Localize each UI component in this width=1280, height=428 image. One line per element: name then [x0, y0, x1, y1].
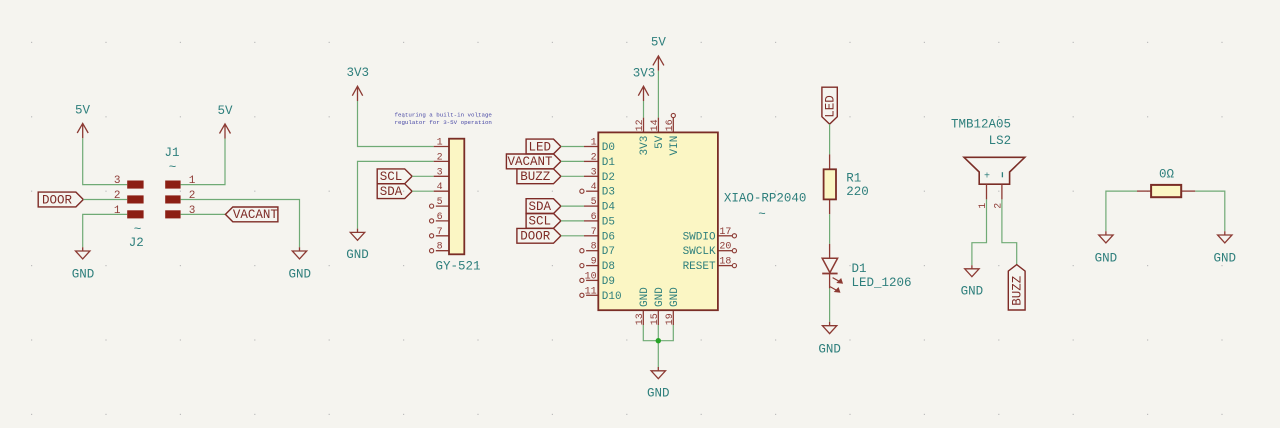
svg-text:3V3: 3V3 [633, 66, 656, 80]
wire 0R left to GND [1106, 191, 1137, 231]
wire J2 pin1 to GND [83, 214, 128, 247]
svg-text:7: 7 [437, 227, 443, 238]
svg-text:20: 20 [719, 242, 731, 253]
svg-text:XIAO-RP2040: XIAO-RP2040 [724, 191, 807, 205]
wire pin13 down [643, 325, 658, 341]
svg-text:D3: D3 [602, 187, 615, 199]
svg-text:J2: J2 [129, 236, 144, 250]
svg-text:2: 2 [994, 203, 1005, 209]
svg-text:3: 3 [437, 167, 443, 178]
resistor 0R [1137, 167, 1195, 197]
global label SCL GY [377, 169, 412, 184]
svg-text:15: 15 [650, 313, 661, 325]
wire LED to pin1 [561, 146, 584, 148]
svg-text:220: 220 [846, 185, 869, 199]
svg-text:R1: R1 [846, 172, 861, 186]
svg-text:SWDIO: SWDIO [683, 231, 716, 243]
svg-text:4: 4 [591, 182, 597, 193]
ground xiao [647, 367, 670, 400]
ground J1 [289, 247, 312, 281]
svg-text:SCL: SCL [380, 170, 403, 184]
svg-text:8: 8 [591, 242, 597, 253]
svg-text:9: 9 [591, 257, 597, 268]
svg-text:featuring a built-in voltage: featuring a built-in voltage [395, 112, 493, 119]
wire D1 to GND [829, 288, 831, 322]
ground GY [346, 229, 369, 263]
IC U1 XIAO-RP2040 [580, 113, 807, 325]
svg-text:3: 3 [114, 175, 121, 187]
wire LS2 pin2 to BUZZ [1002, 199, 1017, 265]
svg-text:12: 12 [635, 119, 646, 131]
svg-text:~: ~ [134, 223, 142, 237]
global label DOOR [38, 192, 83, 207]
global label SCL xiao [526, 214, 561, 229]
ground led [818, 322, 841, 356]
wire pin19 down [658, 325, 673, 341]
svg-text:GND: GND [1095, 251, 1118, 265]
svg-text:GND: GND [72, 267, 95, 281]
svg-text:J1: J1 [164, 146, 179, 160]
wire BUZZ to pin3 [561, 175, 584, 177]
resistor R1 [824, 154, 869, 214]
svg-text:GND: GND [639, 287, 651, 307]
svg-text:1: 1 [591, 138, 597, 149]
svg-text:D1: D1 [852, 262, 867, 276]
global label VACANT [225, 207, 278, 222]
wire GY pin2 to GND [358, 161, 434, 228]
wire J1 pin2 to GND [181, 200, 300, 248]
svg-text:17: 17 [719, 227, 731, 238]
svg-text:VACANT: VACANT [233, 208, 279, 222]
svg-text:D4: D4 [602, 202, 616, 214]
wire J1 pin3 to VACANT [181, 213, 226, 215]
svg-text:2: 2 [189, 190, 196, 202]
svg-text:D6: D6 [602, 231, 615, 243]
global label VACANT xiao [506, 154, 561, 169]
svg-text:RESET: RESET [683, 261, 716, 273]
svg-text:GND: GND [346, 248, 369, 262]
svg-text:6: 6 [437, 212, 443, 223]
svg-text:2: 2 [437, 152, 443, 163]
svg-text:5: 5 [591, 197, 597, 208]
svg-text:16: 16 [665, 119, 676, 131]
global label BUZZ xiao [517, 169, 561, 184]
global label SDA xiao [526, 199, 561, 214]
svg-text:1: 1 [114, 205, 121, 217]
svg-text:5V: 5V [217, 104, 233, 118]
svg-text:7: 7 [591, 227, 597, 238]
svg-text:BUZZ: BUZZ [520, 170, 551, 184]
svg-text:VACANT: VACANT [507, 155, 553, 169]
svg-text:SWCLK: SWCLK [683, 246, 716, 258]
svg-text:2: 2 [114, 190, 121, 202]
svg-text:GND: GND [669, 287, 681, 307]
wire LED to R1 [829, 124, 831, 154]
svg-text:LS2: LS2 [989, 134, 1012, 148]
svg-text:19: 19 [665, 313, 676, 325]
svg-text:DOOR: DOOR [42, 193, 73, 207]
svg-text:D1: D1 [602, 157, 616, 169]
power 5V left [75, 103, 91, 138]
wire pin15 to GND [657, 325, 659, 367]
svg-text:DOOR: DOOR [520, 230, 551, 244]
wire SDA to GY pin4 [412, 190, 434, 192]
connector J2 [114, 175, 144, 250]
svg-text:6: 6 [591, 212, 597, 223]
wire SCL to pin6 [561, 220, 584, 222]
svg-text:~: ~ [758, 207, 766, 221]
wire DOOR to pin7 [561, 235, 584, 237]
svg-text:10: 10 [585, 271, 597, 282]
svg-text:0Ω: 0Ω [1159, 167, 1175, 181]
power 5V xiao [651, 35, 667, 71]
svg-text:3: 3 [189, 205, 196, 217]
svg-text:D2: D2 [602, 172, 615, 184]
svg-text:VIN: VIN [669, 136, 681, 156]
svg-text:LED: LED [529, 140, 552, 154]
svg-text:GND: GND [654, 287, 666, 307]
svg-text:D5: D5 [602, 216, 615, 228]
svg-text:8: 8 [437, 242, 443, 253]
svg-text:5: 5 [437, 197, 443, 208]
global label LED xiao [526, 139, 561, 154]
svg-text:+: + [984, 171, 990, 182]
wire SDA to pin5 [561, 205, 584, 207]
global label DOOR xiao [517, 228, 561, 243]
svg-text:TMB12A05: TMB12A05 [951, 117, 1011, 131]
wire 0R right to GND [1195, 191, 1225, 231]
svg-text:~: ~ [169, 161, 177, 175]
power 3V3 xiao [633, 66, 656, 101]
junction gnd bus [656, 338, 661, 343]
svg-text:13: 13 [635, 313, 646, 325]
svg-text:5V: 5V [75, 103, 91, 117]
svg-text:14: 14 [650, 119, 661, 131]
svg-text:BUZZ: BUZZ [1011, 275, 1025, 306]
power 3V3 GY [346, 66, 369, 101]
svg-text:GY-521: GY-521 [435, 260, 480, 274]
svg-text:4: 4 [437, 182, 443, 193]
svg-text:1: 1 [978, 203, 989, 209]
svg-text:1: 1 [189, 175, 196, 187]
svg-text:SCL: SCL [529, 215, 552, 229]
svg-text:D8: D8 [602, 261, 615, 273]
svg-text:GND: GND [1214, 251, 1237, 265]
svg-text:2: 2 [591, 152, 597, 163]
wire 5V to J2 pin3 [83, 138, 128, 184]
global label LED vertical [822, 87, 838, 124]
svg-text:SDA: SDA [529, 200, 552, 214]
wire 3V3 to pin12 [643, 101, 645, 118]
ground left [72, 247, 95, 281]
wire 5V to pin14 [657, 71, 659, 118]
wire 3V3 to GY pin1 [358, 101, 434, 147]
svg-text:regulator for 3-5V operation: regulator for 3-5V operation [395, 119, 492, 126]
ground LS2 [961, 265, 984, 298]
svg-text:GND: GND [961, 285, 984, 299]
LED D1 [822, 244, 911, 292]
svg-text:GND: GND [818, 342, 841, 356]
buzzer LS2 [951, 117, 1025, 208]
wire 5V to J1 pin1 [181, 139, 225, 185]
power 5V J1 [217, 104, 233, 139]
svg-text:D0: D0 [602, 142, 615, 154]
global label BUZZ vertical [1008, 265, 1025, 310]
global label SDA GY [377, 184, 412, 199]
svg-text:GND: GND [647, 386, 670, 400]
svg-text:5V: 5V [651, 35, 667, 49]
wire SCL to GY pin3 [412, 175, 434, 177]
connector J1 [164, 146, 195, 218]
svg-text:LED: LED [823, 95, 837, 118]
wire VACANT to pin2 [561, 160, 584, 162]
svg-text:18: 18 [719, 257, 731, 268]
svg-text:11: 11 [585, 286, 597, 297]
ground 0R right [1214, 231, 1237, 265]
svg-text:5V: 5V [654, 135, 666, 149]
wire LS2 pin1 to GND [972, 199, 987, 265]
svg-text:3V3: 3V3 [639, 136, 651, 156]
ground 0R left [1095, 231, 1118, 265]
svg-text:D7: D7 [602, 246, 615, 258]
svg-text:SDA: SDA [380, 185, 403, 199]
wire DOOR to J2 pin2 [83, 199, 127, 201]
svg-text:D9: D9 [602, 276, 615, 288]
svg-text:GND: GND [289, 267, 312, 281]
svg-text:3V3: 3V3 [346, 66, 369, 80]
module GY-521 [430, 138, 481, 274]
svg-text:LED_1206: LED_1206 [852, 276, 912, 290]
wire R1 to D1 [829, 214, 831, 244]
svg-text:1: 1 [437, 138, 443, 149]
svg-text:D10: D10 [602, 291, 622, 303]
note voltage regulator [395, 112, 493, 126]
svg-text:3: 3 [591, 167, 597, 178]
